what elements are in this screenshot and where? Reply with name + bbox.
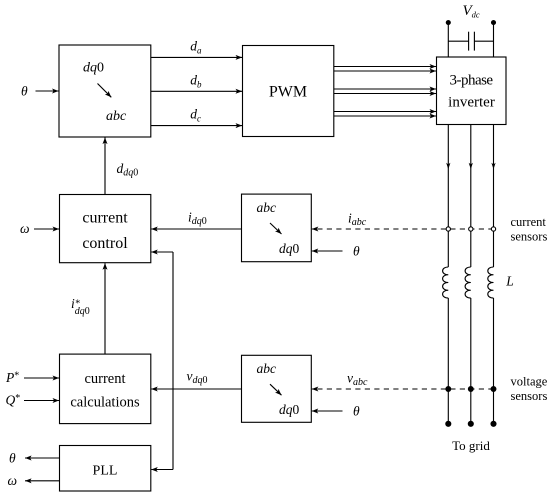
inductor L phase c (488, 267, 494, 298)
block abc->dq0 current transform (242, 194, 312, 262)
svg-text:PWM: PWM (269, 84, 307, 101)
wire v_abc dashed measurement line (312, 388, 494, 390)
arrowhead phase b (469, 163, 473, 170)
wire feedback into current control (151, 251, 173, 253)
svg-text:abc: abc (106, 109, 127, 124)
wire i_dq0 from current transform to current control (151, 228, 241, 230)
block current control (60, 195, 151, 263)
svg-text:dc: dc (190, 107, 201, 124)
svg-text:dq0: dq0 (83, 61, 104, 76)
wire Q* input (24, 400, 59, 402)
diagonal arrow inside voltage transform (270, 384, 282, 395)
svg-text:abc: abc (257, 200, 277, 215)
svg-text:θ: θ (21, 84, 28, 99)
block PLL (60, 446, 151, 492)
svg-text:i*dq0: i*dq0 (71, 296, 90, 317)
diagonal arrow inside current transform (270, 223, 282, 234)
svg-text:Vdc: Vdc (463, 3, 480, 19)
svg-text:L: L (505, 273, 514, 288)
svg-text:vdq0: vdq0 (187, 369, 208, 387)
arrowhead phase a (446, 163, 450, 170)
svg-text:calculations: calculations (70, 395, 140, 411)
node current sensor phase a (446, 227, 450, 231)
svg-text:To grid: To grid (452, 438, 490, 453)
wire d_a (151, 56, 242, 58)
wire phase a line (447, 125, 449, 424)
wire theta input to current transform (312, 250, 343, 252)
node voltage sensor phase c (491, 387, 496, 392)
wire d_b (151, 90, 242, 92)
inductor L phase b (465, 267, 471, 298)
capacitor C dc-link right plate (473, 32, 475, 51)
wire PWM to inverter gate pair 3 line 2 (334, 115, 436, 117)
svg-text:current: current (84, 371, 125, 387)
wire v_dq0 feedback vertical branch (172, 252, 174, 470)
wire v_dq0 from voltage transform to current calculations (151, 388, 241, 390)
wire i_abc dashed measurement line (312, 228, 494, 230)
svg-text:inverter: inverter (448, 95, 495, 111)
wire V_dc left lead (447, 23, 449, 58)
svg-text:θ: θ (353, 404, 360, 419)
svg-text:sensors: sensors (511, 230, 548, 244)
svg-text:sensors: sensors (511, 389, 548, 403)
wire theta output of PLL (25, 457, 60, 459)
node grid terminal phase b (468, 421, 473, 426)
node V_dc positive terminal (446, 21, 450, 25)
svg-text:3-phase: 3-phase (449, 72, 493, 88)
wire phase c line (493, 125, 495, 424)
wire omega input to current control (34, 228, 59, 230)
wire V_dc right lead (493, 23, 495, 58)
svg-text:db: db (190, 72, 202, 89)
node grid terminal phase c (491, 421, 496, 426)
wire PWM to inverter gate pair 3 line 1 (334, 111, 436, 113)
node voltage sensor phase b (468, 387, 473, 392)
inductor L phase a (443, 267, 449, 298)
node grid terminal phase a (446, 421, 451, 426)
wire d_c (151, 125, 242, 127)
block PWM (243, 46, 334, 137)
svg-text:dq0: dq0 (279, 402, 300, 417)
node V_dc negative terminal (492, 21, 496, 25)
wire omega output of PLL (25, 480, 60, 482)
wire theta input to voltage transform (312, 410, 343, 412)
wire PWM to inverter gate pair 1 line 2 (334, 70, 436, 72)
wire PWM to inverter gate pair 2 line 2 (334, 93, 436, 95)
svg-text:ω: ω (20, 221, 30, 236)
wire capacitor right stub (474, 40, 493, 42)
block 3-phase inverter (437, 57, 507, 125)
svg-text:PLL: PLL (93, 463, 118, 478)
svg-text:vabc: vabc (347, 371, 368, 389)
svg-text:ω: ω (8, 473, 18, 488)
svg-text:idq0: idq0 (188, 209, 207, 227)
svg-text:iabc: iabc (348, 211, 367, 229)
wire feedback into PLL (151, 469, 173, 471)
block current calculations (60, 354, 151, 424)
block dq0->abc transform (top left) (59, 45, 151, 137)
node current sensor phase c (491, 227, 495, 231)
svg-text:θ: θ (9, 451, 16, 466)
svg-text:voltage: voltage (511, 375, 548, 389)
svg-text:control: control (82, 235, 128, 252)
svg-text:ddq0: ddq0 (117, 161, 139, 179)
node voltage sensor phase a (446, 387, 451, 392)
block abc->dq0 voltage transform (242, 355, 312, 422)
svg-text:P*: P* (5, 370, 19, 385)
wire d_dq0 from current control up to dq0->abc (104, 138, 106, 195)
svg-text:da: da (190, 38, 202, 55)
svg-text:θ: θ (353, 244, 360, 259)
svg-text:abc: abc (257, 361, 277, 376)
wire capacitor left stub (448, 40, 468, 42)
wire PWM to inverter gate pair 2 line 1 (334, 88, 436, 90)
arrowhead phase c (491, 163, 495, 170)
svg-text:current: current (511, 215, 547, 229)
svg-text:dq0: dq0 (279, 241, 300, 256)
diagonal arrow inside dq0->abc (98, 84, 112, 98)
wire i*_dq0 from current calculations up to current control (104, 263, 106, 354)
wire phase b line (470, 125, 472, 424)
wire P* input (24, 377, 59, 379)
wire PWM to inverter gate pair 1 line 1 (334, 66, 436, 68)
svg-text:current: current (82, 210, 128, 227)
wire theta input to dq0->abc (36, 90, 59, 92)
capacitor C dc-link left plate (468, 32, 470, 51)
node current sensor phase b (469, 227, 473, 231)
svg-text:Q*: Q* (6, 393, 21, 408)
